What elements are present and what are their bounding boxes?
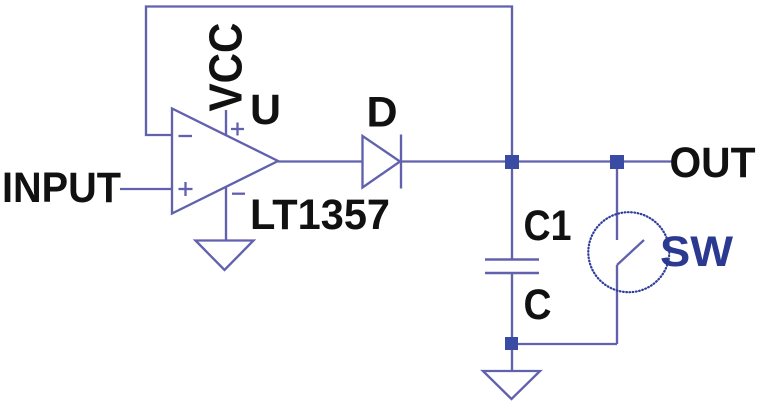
svg-text:INPUT: INPUT (2, 164, 121, 212)
svg-text:U: U (250, 86, 281, 134)
svg-text:C: C (524, 281, 552, 329)
svg-text:OUT: OUT (670, 139, 756, 187)
svg-text:C1: C1 (524, 202, 572, 250)
svg-text:VCC: VCC (200, 23, 252, 112)
svg-text:LT1357: LT1357 (250, 191, 390, 239)
svg-text:SW: SW (660, 228, 733, 276)
svg-text:D: D (367, 89, 398, 137)
